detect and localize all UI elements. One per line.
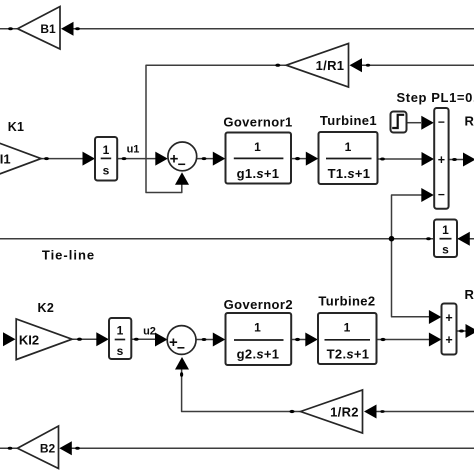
svg-text:+: + (438, 153, 445, 167)
svg-text:1/R1: 1/R1 (316, 58, 345, 73)
svg-text:+: + (445, 333, 452, 347)
svg-text:B2: B2 (40, 442, 56, 456)
svg-text:1: 1 (254, 321, 261, 335)
svg-text:−: − (178, 156, 186, 172)
svg-text:KI1: KI1 (0, 152, 11, 167)
svg-text:Step PL1=0.01: Step PL1=0.01 (397, 90, 474, 105)
svg-text:Governor1: Governor1 (223, 115, 292, 130)
svg-text:K1: K1 (8, 120, 25, 134)
svg-text:KI2: KI2 (19, 333, 39, 348)
svg-text:1: 1 (254, 140, 261, 154)
svg-text:g2.s+1: g2.s+1 (237, 347, 280, 362)
svg-text:+: + (445, 311, 452, 325)
svg-text:s: s (442, 243, 449, 257)
svg-text:T1.s+1: T1.s+1 (328, 166, 371, 181)
svg-text:T2.s+1: T2.s+1 (327, 347, 370, 362)
svg-text:−: − (438, 188, 445, 202)
svg-text:Tie-line: Tie-line (42, 248, 95, 263)
svg-text:g1.s+1: g1.s+1 (237, 166, 280, 181)
svg-text:1: 1 (344, 321, 351, 335)
svg-text:Governor2: Governor2 (224, 297, 293, 312)
svg-text:1: 1 (345, 140, 352, 154)
svg-text:1: 1 (103, 143, 110, 157)
svg-text:K2: K2 (38, 301, 55, 315)
svg-text:Result1: Result1 (465, 114, 474, 129)
svg-text:1/R2: 1/R2 (330, 405, 359, 420)
svg-text:s: s (117, 344, 124, 358)
svg-text:1: 1 (117, 324, 124, 338)
svg-text:B1: B1 (40, 22, 56, 36)
svg-text:−: − (177, 340, 185, 356)
svg-text:1: 1 (442, 223, 449, 237)
svg-text:Result2: Result2 (465, 287, 474, 302)
svg-text:u2: u2 (143, 326, 156, 338)
svg-text:Turbine1: Turbine1 (320, 113, 377, 128)
svg-text:−: − (438, 115, 445, 129)
svg-text:s: s (103, 164, 110, 178)
svg-text:Turbine2: Turbine2 (318, 294, 375, 309)
svg-text:u1: u1 (127, 144, 140, 156)
